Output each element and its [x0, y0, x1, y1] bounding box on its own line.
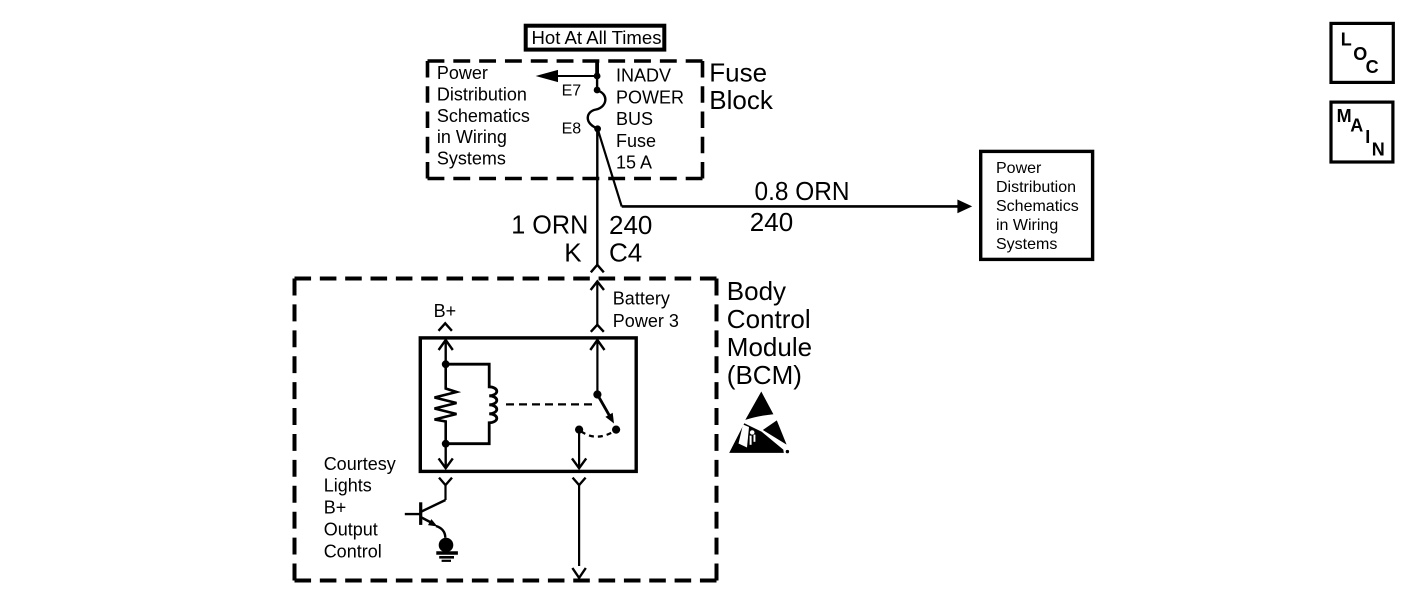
connector chevron at C4: [591, 265, 604, 273]
svg-text:A: A: [1350, 116, 1363, 136]
connector arrow into BCM: [591, 282, 604, 325]
fuse block dashed box: [428, 61, 703, 179]
node: fuse bottom terminal: [594, 125, 601, 132]
svg-text:1 ORN: 1 ORN: [511, 209, 588, 239]
connector chevron above relay box: [591, 325, 604, 332]
svg-text:Hot At All Times: Hot At All Times: [532, 28, 662, 48]
svg-text:C4: C4: [609, 237, 642, 267]
transistor Q (output driver): [405, 500, 446, 538]
B+ chevron: [439, 323, 452, 331]
connector chevron below relay (right): [572, 478, 585, 578]
MAIN reference box: [1331, 102, 1393, 162]
node: output contact: [575, 426, 583, 434]
svg-text:240: 240: [609, 210, 652, 240]
relay switch feed arrow: [590, 340, 604, 395]
dashed throw arc: [581, 431, 612, 436]
wire: main vertical feed: [596, 129, 598, 265]
connector chevron below relay (left): [439, 478, 452, 500]
node: fuse top terminal: [594, 87, 601, 94]
node: arrow branch junction: [594, 73, 601, 80]
node: coil bottom junction: [442, 440, 450, 448]
svg-text:0.8 ORN: 0.8 ORN: [755, 176, 850, 206]
relay box: [420, 338, 636, 472]
svg-text:I: I: [1365, 127, 1370, 147]
switch arm: [597, 395, 614, 424]
body control module dashed box: [295, 279, 717, 581]
node: switch pivot: [593, 390, 601, 398]
hot at all times box: [526, 26, 665, 50]
ESD symbol: [729, 392, 789, 454]
svg-text:240: 240: [750, 207, 793, 237]
LOC reference box: [1331, 23, 1393, 82]
resistor (relay): [435, 364, 457, 444]
power distribution box (right): [981, 151, 1093, 259]
wire junction to fuse: [596, 76, 598, 90]
node: switch contact: [612, 426, 620, 434]
node: coil top junction: [442, 360, 450, 368]
fuse element (S-curve): [588, 91, 606, 129]
wire: coil output down arrow: [439, 444, 453, 469]
svg-text:E7: E7: [562, 82, 582, 99]
relay coil: [446, 364, 497, 444]
wire: switch output down arrow: [572, 430, 586, 469]
wire: 0.8 ORN 240 to right: [622, 200, 973, 214]
svg-text:FuseBlock: FuseBlock: [709, 57, 774, 115]
dashed actuation link: [506, 403, 594, 405]
svg-text:L: L: [1341, 30, 1352, 50]
wire: diagonal branch from fuse: [598, 129, 622, 207]
svg-text:N: N: [1372, 139, 1385, 159]
svg-text:B+: B+: [434, 301, 457, 321]
ground: [436, 553, 458, 561]
svg-text:K: K: [564, 237, 582, 267]
svg-text:C: C: [1366, 57, 1379, 77]
wire to power distribution (left arrow): [536, 70, 598, 82]
ground splice dot: [439, 538, 454, 553]
wire stub from hot box into fuse block: [595, 60, 599, 77]
relay coil feed arrow (left): [439, 340, 453, 364]
svg-text:E8: E8: [562, 120, 582, 137]
